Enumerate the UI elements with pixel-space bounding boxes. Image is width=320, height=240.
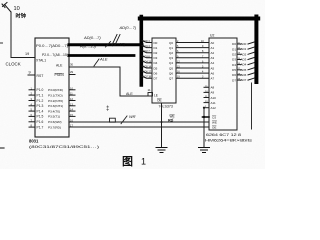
- wire CS tie vertical to ground: [203, 108, 205, 147]
- memory A pin numbers: [201, 40, 204, 79]
- wire CLOCK vertical: [10, 12, 12, 58]
- bus AD right vertical: [254, 17, 258, 83]
- memory CS WE OE labels: [212, 116, 217, 130]
- slash on ALE wire: [94, 59, 99, 66]
- wire CLOCK horizontal to XTAL1: [11, 57, 35, 59]
- small box on WR wire: [110, 118, 116, 122]
- memory A8-A12 pin stubs: [204, 87, 209, 107]
- MCU U3 8031 body: [35, 38, 69, 137]
- MCU P1 pin stubs left: [29, 90, 35, 127]
- junction dot CS: [203, 116, 205, 118]
- memory D0-D7 labels: [232, 42, 236, 82]
- memory A0-A7 labels: [211, 41, 215, 81]
- memory A8-A12 pin numbers: [205, 86, 208, 108]
- LE pin jog box: [148, 93, 153, 97]
- latch U1 74LS373 body: [152, 38, 176, 103]
- MCU ALE pin stub: [69, 66, 75, 68]
- latch Q pin numbers: [177, 40, 180, 79]
- junction dot latch drop on WR wire: [161, 121, 163, 123]
- wire WR long (P3.6 to WE): [69, 121, 209, 123]
- taps AD bus to latch D pins: [142, 41, 152, 79]
- memory D pin numbers 11-19: [238, 42, 241, 80]
- tap labels AD0-AD7 with pin numbers: [143, 40, 152, 79]
- MCU P1 pin numbers 1-8: [31, 86, 33, 127]
- wires latch Q to memory A0-A7: [176, 43, 209, 79]
- MCU P1.0-P1.7 labels: [37, 88, 44, 129]
- thin continuation of right bus: [251, 83, 253, 129]
- edge mark left bottom: [0, 147, 4, 149]
- pin stub RST: [28, 74, 35, 76]
- edge mark left middle: [0, 42, 3, 44]
- clock oscillator symbol top-left: [2, 3, 11, 13]
- MCU P3 pin stubs right: [69, 90, 75, 117]
- bus AD vertical drop to latch: [140, 17, 144, 86]
- junction dot A12: [203, 107, 205, 109]
- memory A8-A12 labels: [211, 86, 217, 110]
- net labels AD0-AD7 on right bus: [241, 42, 247, 82]
- memory U2 6264 body: [209, 38, 237, 130]
- latch D0-D7 labels: [154, 41, 158, 81]
- memory CS pin stub (thick with junction): [203, 116, 210, 118]
- wire ALE from MCU: [69, 67, 152, 96]
- latch Q0-Q7 labels: [169, 41, 173, 81]
- ground symbol under latch: [156, 148, 167, 153]
- ground symbol under CS: [199, 148, 210, 153]
- bus AD(0..7) from P0: [69, 43, 142, 46]
- bus AD top horizontal: [140, 17, 258, 21]
- bus A(8..15) from P2: [69, 54, 134, 57]
- taps memory D pins to right AD bus: [248, 42, 254, 80]
- latch OE drop to ground: [161, 103, 163, 147]
- MCU PSEN pin stub: [69, 74, 75, 76]
- memory D pin stubs right: [237, 44, 241, 80]
- slash on WR wire: [121, 116, 127, 124]
- wire RD long (P3.7 to OE): [69, 126, 209, 128]
- MCU P3.0-P3.7 labels: [48, 88, 63, 129]
- bus slash marks on AD bus: [112, 35, 120, 46]
- bus slash on A bus: [106, 42, 111, 48]
- MCU P3 pin numbers 10-17: [70, 86, 73, 127]
